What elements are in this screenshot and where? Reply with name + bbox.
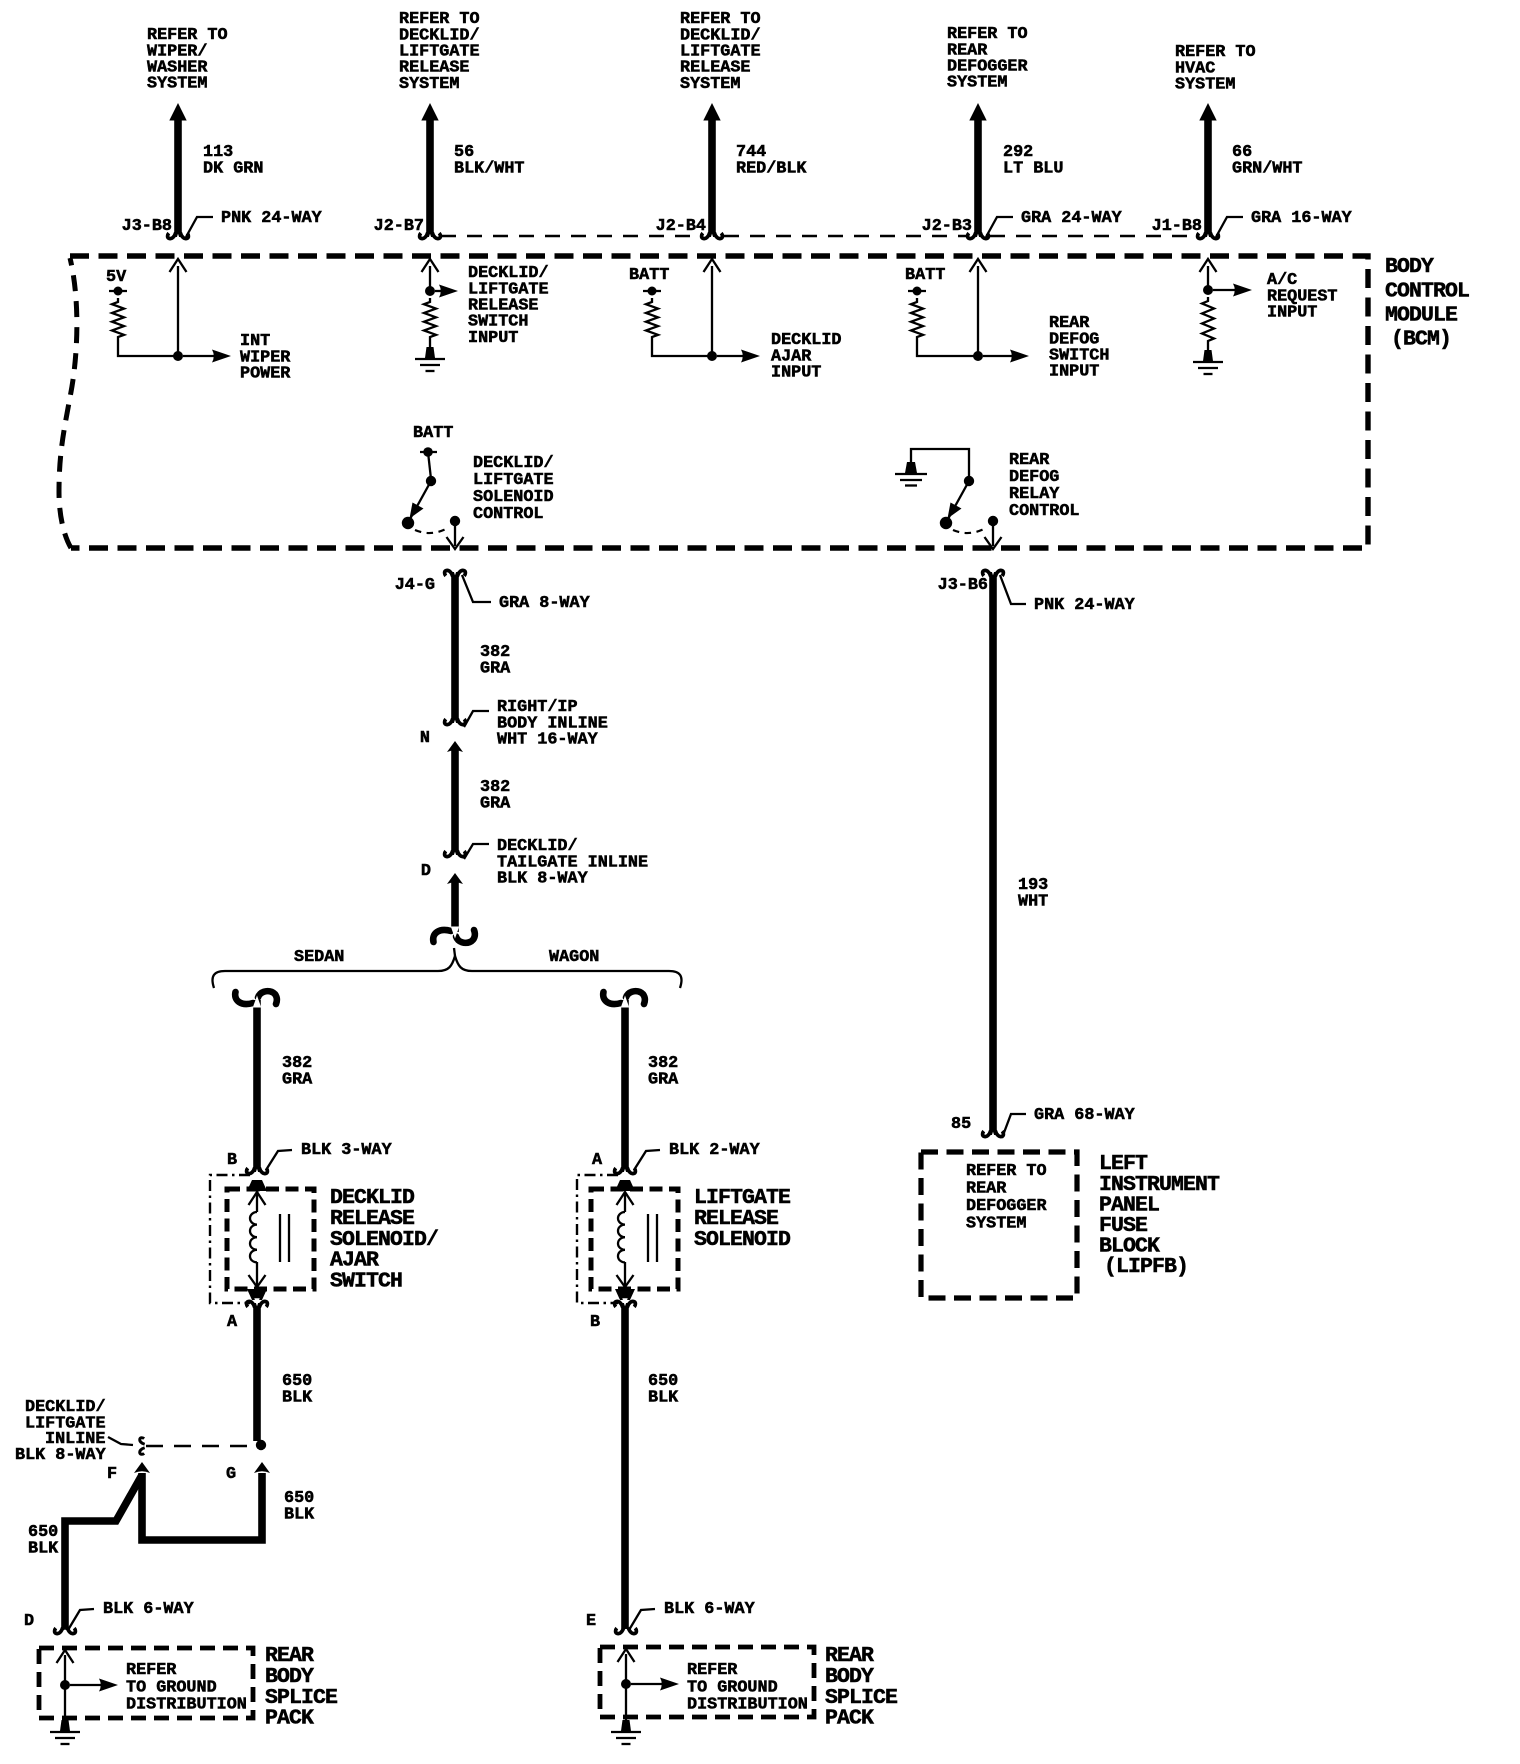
pin: J2-B7 entry arrow into BCM	[422, 259, 439, 272]
label: connector BLK 2-WAY	[634, 1150, 660, 1170]
svg-text:CONTROL: CONTROL	[1385, 279, 1469, 303]
svg-text:REFER: REFER	[126, 1661, 177, 1680]
svg-text:REAR: REAR	[966, 1180, 1007, 1199]
ground: A/C request input	[1203, 350, 1213, 361]
pin: J2-B3 entry arrow into BCM	[970, 259, 987, 272]
switch: wagon contacts	[647, 1214, 649, 1262]
connector: branch female end	[433, 927, 475, 943]
component: decklid release solenoid / ajar switch case	[210, 1175, 250, 1303]
svg-text:CONTROL: CONTROL	[473, 505, 544, 524]
svg-text:SYSTEM: SYSTEM	[966, 1215, 1026, 1234]
pin: J1-B8 entry arrow into BCM	[1200, 259, 1217, 272]
svg-text:POWER: POWER	[240, 365, 291, 384]
module: BODY CONTROL MODULE (BCM) dashed border	[70, 256, 1368, 548]
svg-text:B: B	[590, 1313, 600, 1332]
wire: thick output wire W1 to WIPER/ system	[169, 103, 186, 121]
svg-text:A: A	[227, 1313, 238, 1332]
svg-text:BLK 6-WAY: BLK 6-WAY	[103, 1600, 195, 1619]
arrow: A/C REQUEST INPUT signal	[1213, 289, 1238, 291]
label: connector PNK 24-WAY at J3-B6	[1000, 575, 1026, 604]
svg-text:BLK 3-WAY: BLK 3-WAY	[301, 1141, 393, 1160]
svg-text:SYSTEM: SYSTEM	[680, 75, 740, 94]
wire: resistor to junction	[118, 341, 176, 356]
svg-text:BATT: BATT	[629, 266, 669, 285]
svg-text:J1-B8: J1-B8	[1152, 217, 1202, 236]
svg-text:GRA 16-WAY: GRA 16-WAY	[1251, 209, 1353, 228]
svg-text:INPUT: INPUT	[468, 329, 518, 348]
node: BATT rail tap (defog)	[908, 290, 926, 292]
svg-text:F: F	[107, 1465, 117, 1484]
wire: wagon 382 GRA	[621, 1000, 629, 1172]
svg-text:GRA: GRA	[480, 659, 511, 678]
ground: wagon splice pack	[621, 1720, 631, 1731]
pin: sedan solenoid entry wedge	[247, 1180, 267, 1191]
svg-text:REFER: REFER	[687, 1661, 738, 1680]
svg-text:J4-G: J4-G	[395, 576, 435, 595]
wire: ajar resistor to junction	[652, 341, 710, 356]
connector: sedan splice pack female end	[55, 1627, 76, 1636]
wire: 382 GRA from J4-G	[451, 572, 459, 723]
svg-text:D: D	[24, 1612, 34, 1631]
svg-text:GRA 68-WAY: GRA 68-WAY	[1034, 1106, 1136, 1125]
arrow: refer to ground distribution (sedan)	[70, 1684, 104, 1686]
inductor: decklid release solenoid coil	[250, 1212, 257, 1262]
svg-text:MODULE: MODULE	[1385, 303, 1458, 327]
svg-text:PNK 24-WAY: PNK 24-WAY	[221, 209, 323, 228]
node: junction INT WIPER POWER	[173, 351, 183, 361]
wire: sedan 650 BLK	[253, 1303, 261, 1441]
svg-text:GRA 8-WAY: GRA 8-WAY	[499, 594, 591, 613]
component: decklid release solenoid box	[227, 1189, 314, 1289]
svg-text:BLK 2-WAY: BLK 2-WAY	[669, 1141, 761, 1160]
pin: J3-B6 exit arrow	[992, 526, 994, 546]
wire: 650 BLK to splice pack (sedan)	[65, 1475, 142, 1630]
svg-text:PACK: PACK	[825, 1707, 874, 1731]
label: connector GRA 8-WAY	[462, 575, 491, 602]
wire: 382 GRA middle segment	[451, 749, 459, 855]
svg-text:E: E	[586, 1612, 596, 1631]
label: connector BLK 3-WAY	[266, 1150, 292, 1170]
pin: splice pack entry arrow (wagon)	[618, 1649, 635, 1662]
resistor: A/C request pull-down	[1202, 297, 1214, 345]
resistor: wiper input pull-up	[112, 298, 124, 341]
svg-text:GRA 24-WAY: GRA 24-WAY	[1021, 209, 1123, 228]
svg-text:RED/BLK: RED/BLK	[736, 159, 807, 178]
pin: splice pack entry arrow (sedan)	[57, 1650, 74, 1663]
svg-text:DEFOGGER: DEFOGGER	[966, 1197, 1047, 1216]
svg-text:TO GROUND: TO GROUND	[126, 1678, 217, 1697]
component: rear body splice pack box (sedan)	[39, 1648, 253, 1718]
node: 5V rail tap	[109, 290, 127, 292]
wire: 382 GRA to branch point	[451, 881, 459, 932]
svg-text:GRA: GRA	[282, 1070, 313, 1089]
component: liftgate release solenoid box	[591, 1189, 678, 1289]
wire: thick output wire W4 to REAR system	[969, 103, 986, 121]
wire: wagon 650 BLK	[621, 1303, 629, 1629]
wire: 650 BLK G loop	[142, 1473, 262, 1540]
resistor: release switch pull-down	[424, 298, 436, 341]
svg-text:BLK 8-WAY: BLK 8-WAY	[497, 870, 589, 889]
svg-text:D: D	[421, 862, 431, 881]
svg-text:BLK: BLK	[648, 1388, 679, 1407]
arrow: REAR DEFOG SWITCH INPUT signal	[983, 355, 1015, 357]
svg-text:N: N	[420, 729, 430, 748]
svg-text:J3-B8: J3-B8	[122, 217, 172, 236]
svg-text:GRA: GRA	[648, 1070, 679, 1089]
connector: inline female end (left)	[137, 1438, 145, 1455]
node: junction defog switch input	[973, 351, 983, 361]
pin: wagon solenoid entry wedge	[615, 1180, 635, 1191]
wire: defog resistor to junction	[917, 341, 976, 356]
arrow: DECKLID/LIFTGATE RELEASE SWITCH INPUT signal	[435, 290, 444, 292]
wire: thick output wire W2 to DECKLID/ system	[421, 103, 438, 121]
inductor: liftgate release solenoid coil	[618, 1212, 625, 1262]
arrow: DECKLID AJAR INPUT signal	[717, 355, 746, 357]
switch: rear defog relay driver	[964, 476, 974, 486]
svg-text:J3-B6: J3-B6	[938, 576, 988, 595]
svg-text:5V: 5V	[106, 268, 127, 287]
svg-text:J2-B3: J2-B3	[922, 217, 972, 236]
label: connector GRA 24-WAY at J2-B3	[986, 217, 1013, 237]
pin: J2-B4 entry arrow into BCM	[704, 259, 721, 272]
connector: decklid/tailgate inline D	[445, 850, 466, 859]
svg-text:DISTRIBUTION: DISTRIBUTION	[687, 1696, 808, 1715]
svg-text:J2-B7: J2-B7	[374, 217, 424, 236]
svg-text:BLK 8-WAY: BLK 8-WAY	[15, 1446, 107, 1465]
arrow: refer to ground distribution (wagon)	[631, 1683, 665, 1685]
node: junction A/C request	[1203, 285, 1213, 295]
svg-text:INPUT: INPUT	[1049, 363, 1099, 382]
svg-text:TO GROUND: TO GROUND	[687, 1678, 778, 1697]
svg-text:G: G	[226, 1465, 236, 1484]
ground: release switch input	[425, 347, 435, 358]
pin: wagon solenoid exit wedge	[615, 1289, 635, 1300]
svg-text:SYSTEM: SYSTEM	[1175, 76, 1235, 95]
label: connector PNK 24-WAY at J3-B8	[186, 217, 213, 237]
svg-text:BODY: BODY	[1385, 255, 1434, 279]
wire: thick output wire W3 to DECKLID/ system	[703, 103, 720, 121]
svg-text:REFER TO: REFER TO	[966, 1162, 1047, 1181]
wire: A/C resistor to ground	[1207, 345, 1209, 350]
component: liftgate release solenoid case	[577, 1175, 618, 1303]
svg-text:(LIPFB): (LIPFB)	[1104, 1255, 1188, 1279]
svg-text:BLK: BLK	[282, 1388, 313, 1407]
resistor: defog switch pull-up	[911, 298, 923, 341]
node: sedan wire to inline connector	[256, 1440, 266, 1450]
svg-text:SYSTEM: SYSTEM	[399, 75, 459, 94]
svg-text:SYSTEM: SYSTEM	[147, 75, 207, 94]
svg-text:PACK: PACK	[265, 1707, 314, 1731]
wire: 193 WHT from J3-B6	[989, 572, 997, 1135]
svg-text:PNK 24-WAY: PNK 24-WAY	[1034, 596, 1136, 615]
svg-text:SYSTEM: SYSTEM	[947, 74, 1007, 93]
node: splice junction (sedan)	[60, 1680, 70, 1690]
node: junction release switch input	[425, 286, 435, 296]
node: splice junction (wagon)	[621, 1679, 631, 1689]
svg-text:BLK 6-WAY: BLK 6-WAY	[664, 1600, 756, 1619]
component: LIPFB dashed box	[921, 1152, 1077, 1298]
wire: resistor to ground	[429, 341, 431, 347]
connector: RIGHT/IP body inline N	[445, 718, 466, 727]
svg-text:B: B	[227, 1151, 237, 1170]
svg-text:BATT: BATT	[905, 266, 945, 285]
ground: relay driver ground	[905, 462, 917, 473]
wire: sedan 382 GRA	[253, 1000, 261, 1172]
node: BATT rail tap (ajar)	[643, 290, 661, 292]
svg-text:SOLENOID: SOLENOID	[694, 1228, 791, 1252]
svg-text:WHT 16-WAY: WHT 16-WAY	[497, 731, 599, 750]
svg-text:WAGON: WAGON	[549, 948, 599, 967]
pin: J4-G exit arrow	[454, 526, 456, 546]
svg-text:85: 85	[951, 1115, 971, 1134]
pin: sedan solenoid exit wedge	[247, 1289, 267, 1300]
component: rear body splice pack box (wagon)	[600, 1647, 814, 1717]
switch: decklid/liftgate solenoid driver	[428, 452, 431, 479]
wire: dashed harness link J2-B7 to J1-B8	[441, 235, 1196, 237]
svg-text:INPUT: INPUT	[771, 364, 821, 383]
connector: wagon splice pack female end	[616, 1627, 637, 1636]
svg-text:INPUT: INPUT	[1267, 304, 1317, 323]
arrow: INT WIPER POWER signal	[183, 355, 217, 357]
svg-text:BLK/WHT: BLK/WHT	[454, 159, 525, 178]
svg-text:J2-B4: J2-B4	[656, 217, 706, 236]
wire: ground to relay switch	[911, 449, 969, 479]
svg-text:BLK: BLK	[284, 1505, 315, 1524]
svg-text:DK GRN: DK GRN	[203, 159, 263, 178]
svg-text:GRN/WHT: GRN/WHT	[1232, 159, 1303, 178]
svg-text:(BCM): (BCM)	[1391, 328, 1451, 352]
label: connector GRA 16-WAY at J1-B8	[1216, 217, 1243, 237]
svg-text:LT BLU: LT BLU	[1003, 159, 1063, 178]
svg-text:SEDAN: SEDAN	[294, 948, 344, 967]
label: connector BLK 6-WAY (wagon)	[629, 1609, 655, 1630]
wire: thick output wire W5 to HVAC system	[1199, 103, 1216, 121]
svg-text:GRA: GRA	[480, 794, 511, 813]
svg-text:A: A	[592, 1151, 603, 1170]
wire: dashed inline jumper	[146, 1445, 256, 1448]
svg-text:CONTROL: CONTROL	[1009, 502, 1080, 521]
svg-text:WHT: WHT	[1018, 892, 1048, 911]
label: connector BLK 6-WAY (sedan)	[68, 1609, 94, 1630]
pin: J3-B8 entry arrow into BCM	[170, 259, 187, 272]
resistor: ajar input pull-up	[646, 298, 658, 341]
node: BATT tap solenoid driver	[420, 451, 437, 453]
svg-text:BLK: BLK	[28, 1539, 59, 1558]
svg-text:BATT: BATT	[413, 424, 453, 443]
node: sedan/wagon branch brace	[212, 956, 681, 988]
node: junction ajar input	[707, 351, 717, 361]
ground: sedan splice pack	[60, 1720, 70, 1731]
svg-text:DISTRIBUTION: DISTRIBUTION	[126, 1696, 247, 1715]
label: connector GRA 68-WAY	[1002, 1114, 1026, 1138]
svg-text:SWITCH: SWITCH	[330, 1269, 402, 1293]
switch: ajar switch contacts	[279, 1214, 281, 1262]
